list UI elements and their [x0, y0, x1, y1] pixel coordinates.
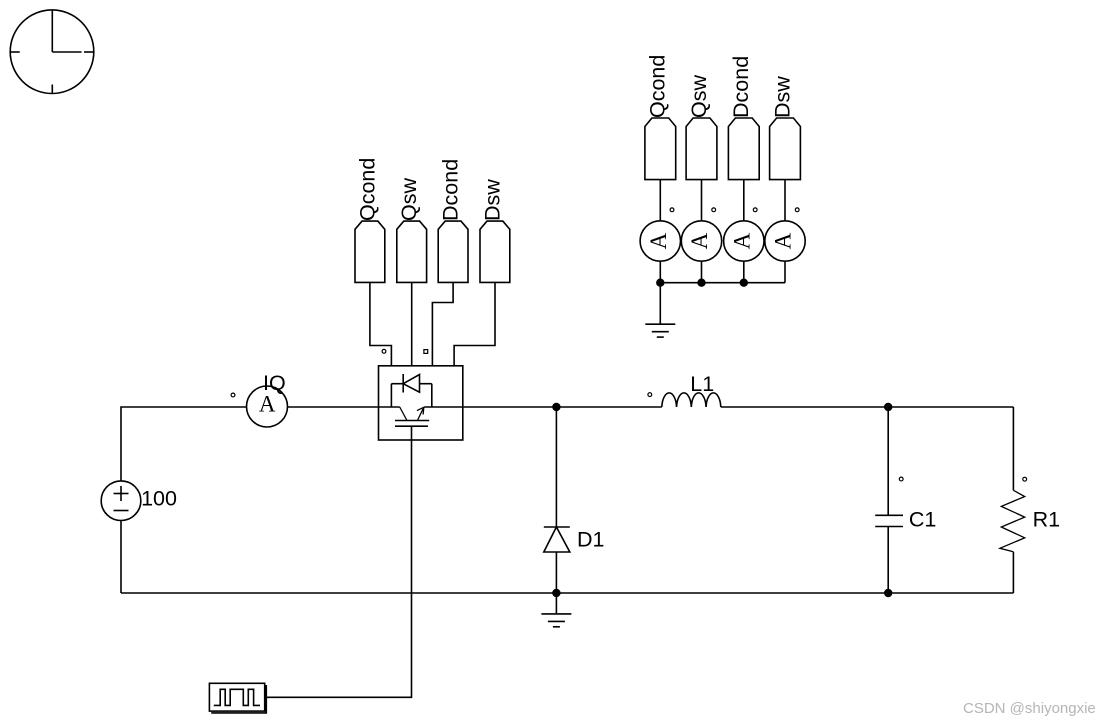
svg-text:A: A: [729, 232, 754, 249]
probe Qsw (middle): [397, 221, 427, 282]
probe Dcond (middle): [438, 221, 468, 282]
wire probe Qsw to box: [411, 282, 413, 365]
wire probe Dcond to box: [432, 282, 453, 365]
wire rail inside box (collector side): [379, 406, 400, 408]
node marker circle at R1: [1023, 477, 1027, 481]
wire probe to ammeter A1: [659, 180, 661, 221]
svg-text:C1: C1: [909, 508, 936, 532]
svg-text:100: 100: [141, 487, 177, 511]
clock symbol: [10, 10, 94, 94]
voltage source V1: [101, 481, 141, 521]
probe Dsw (top right): [770, 118, 801, 180]
node marker circle at C1: [899, 477, 903, 481]
junction dot C1 bottom: [885, 590, 892, 597]
svg-text:A: A: [646, 232, 671, 249]
ammeter A3: [724, 221, 764, 261]
wire box to D1 node and L1: [463, 406, 662, 408]
svg-text:Qcond: Qcond: [646, 55, 670, 118]
wire rail inside box (emitter side): [424, 406, 462, 408]
wire L1 to C1 node to R1 corner: [721, 406, 1014, 408]
wire probe to ammeter A4: [784, 180, 786, 221]
svg-text:R1: R1: [1033, 508, 1060, 532]
svg-text:Qsw: Qsw: [397, 178, 421, 221]
svg-text:CSDN @shiyongxie: CSDN @shiyongxie: [963, 700, 1096, 717]
svg-text:D1: D1: [577, 528, 604, 552]
ground below bus: [645, 283, 675, 337]
capacitor C1: [875, 407, 903, 593]
junction dots on bus: [657, 279, 664, 286]
svg-text:A: A: [259, 392, 276, 417]
wire probe Dsw to box: [454, 282, 495, 365]
diode inside box: [391, 374, 431, 407]
ammeter A2: [681, 221, 721, 261]
svg-text:A: A: [771, 232, 796, 249]
inductor L1: [662, 393, 721, 407]
node marker circles above ammeters: [670, 208, 674, 212]
diode D1: [544, 407, 570, 593]
svg-text:L1: L1: [690, 372, 714, 396]
bus wire: [660, 282, 785, 284]
wire source to bottom rail: [120, 521, 122, 594]
svg-text:Qcond: Qcond: [355, 158, 379, 221]
wire top rail left segment: [121, 407, 247, 481]
wires ammeters to bus: [659, 261, 661, 283]
junction dot C1 top: [885, 404, 892, 411]
svg-text:Dsw: Dsw: [770, 76, 794, 118]
junction dot D1 bottom: [553, 590, 560, 597]
probe Qcond (middle): [355, 221, 385, 282]
wire ammeter IQ to box: [288, 406, 379, 408]
IGBT with diode U1 box: [379, 366, 463, 440]
svg-text:IQ: IQ: [263, 371, 286, 395]
ammeter A1: [640, 221, 680, 261]
node marker circle at box input: [382, 349, 386, 353]
wire probe to ammeter A3: [743, 180, 745, 221]
svg-text:Dsw: Dsw: [480, 179, 504, 221]
svg-text:A: A: [687, 232, 712, 249]
wire IGBT gate to pulse generator: [266, 440, 411, 697]
ground below D1: [541, 593, 571, 627]
wire bottom rail: [121, 592, 1013, 594]
probe Qcond (top right): [645, 118, 676, 180]
node marker square at box input: [424, 350, 428, 354]
svg-text:Qsw: Qsw: [687, 75, 711, 118]
svg-text:Dcond: Dcond: [439, 159, 463, 221]
node marker circle at IQ ammeter: [231, 393, 235, 397]
probe Qsw (top right): [686, 118, 717, 180]
junction dot D1 top: [553, 404, 560, 411]
probe Dsw (middle): [480, 221, 510, 282]
ammeter IQ: [247, 386, 288, 427]
svg-text:Dcond: Dcond: [729, 56, 753, 118]
IGBT inside box: [395, 407, 429, 440]
wire probe Qcond to box: [370, 282, 392, 365]
ammeter letters A (top right, rotated): [646, 232, 796, 249]
pulse generator: [209, 683, 266, 713]
resistor R1: [1000, 407, 1025, 593]
wire probe to ammeter A2: [701, 180, 703, 221]
probe Dcond (top right): [728, 118, 759, 180]
ammeter A4: [765, 221, 805, 261]
node marker circle at L1: [648, 393, 652, 397]
